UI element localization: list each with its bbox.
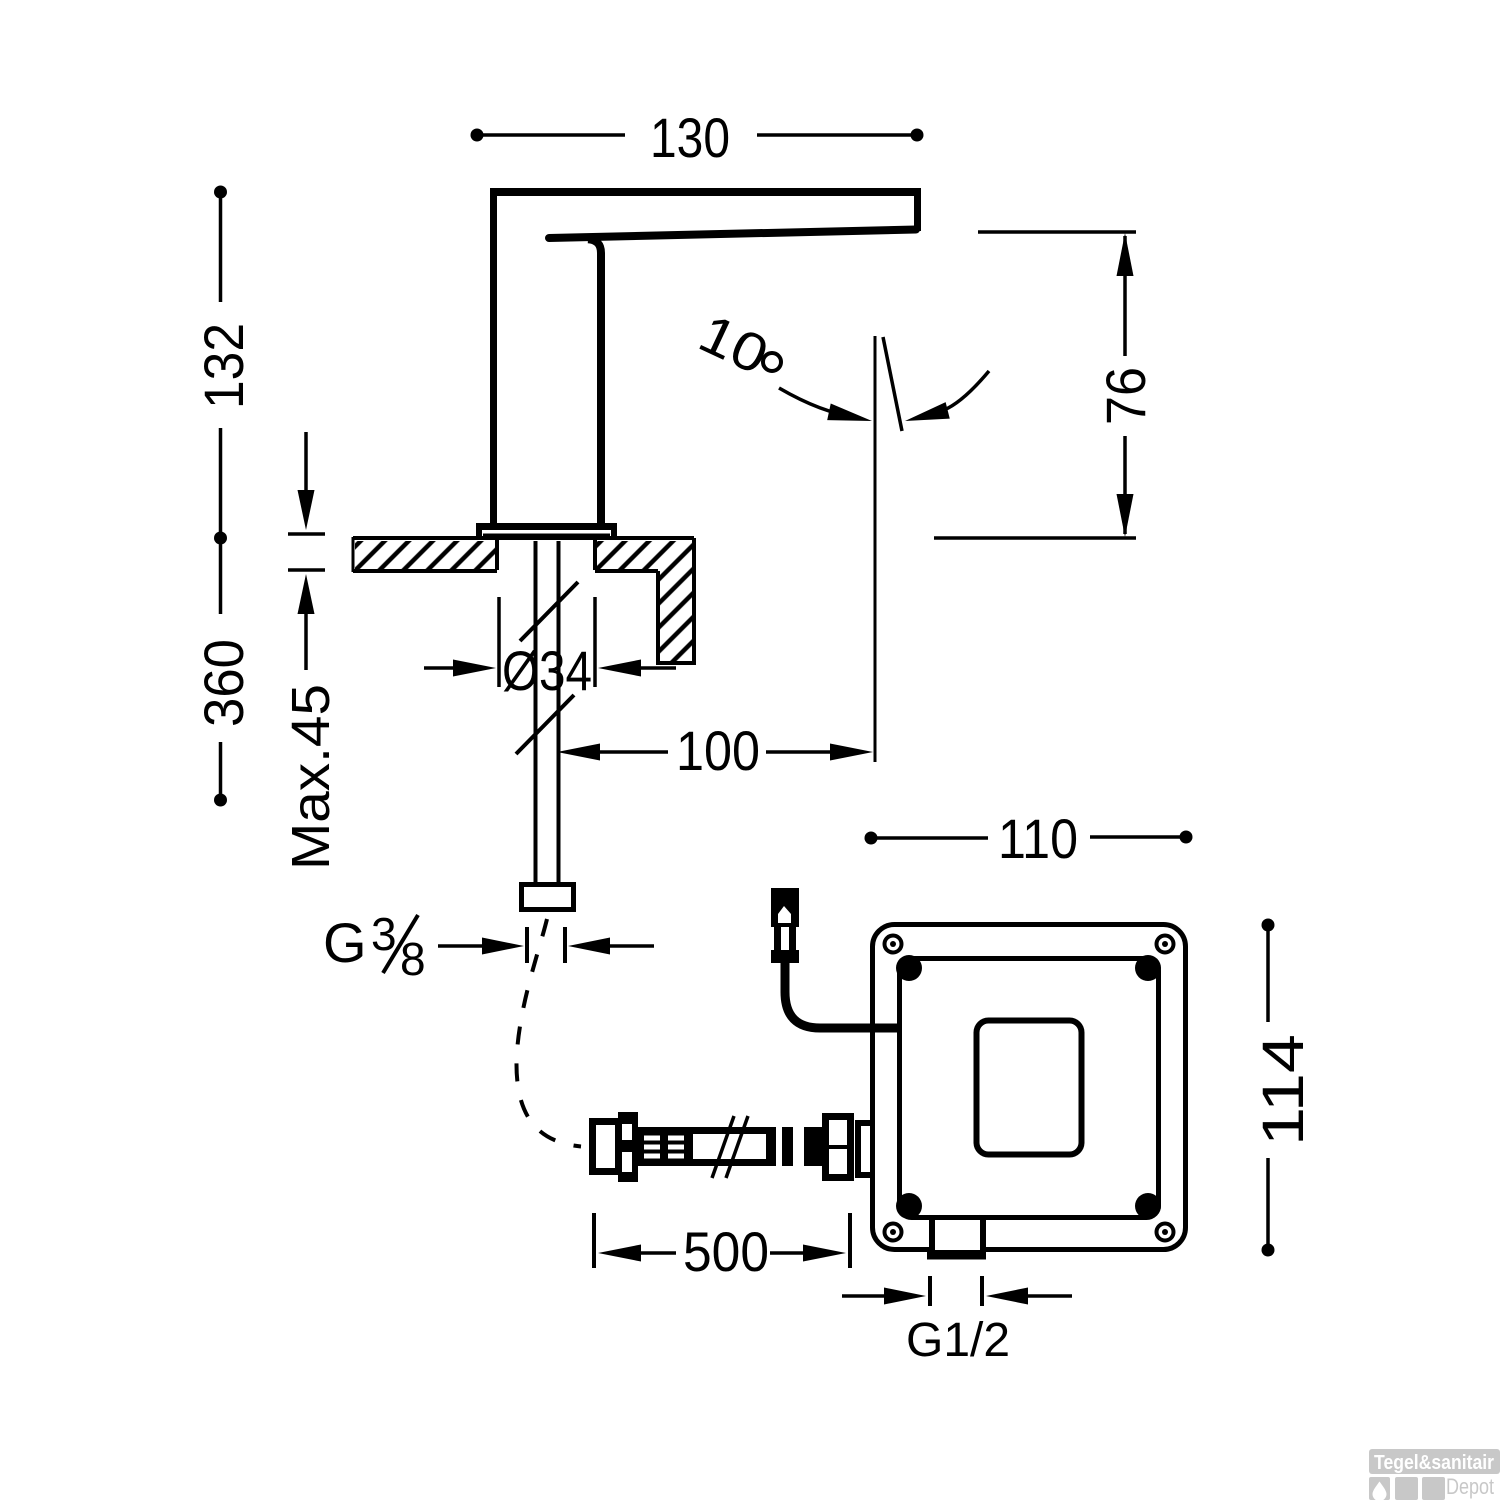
flexible hose assembly bbox=[593, 1112, 876, 1182]
svg-text:360: 360 bbox=[192, 639, 255, 727]
dimension 114 bbox=[1262, 919, 1275, 1257]
dimension G1/2 bbox=[842, 1276, 1072, 1306]
label G 3/8 bbox=[323, 908, 426, 985]
bottom outlet G1/2 bbox=[927, 1219, 986, 1256]
svg-text:G1/2: G1/2 bbox=[906, 1314, 1010, 1367]
sensor cable bbox=[785, 960, 897, 1028]
angle arc left with arrowhead bbox=[779, 388, 874, 429]
watermark Tegel&sanitair Depot bbox=[1369, 1449, 1500, 1500]
svg-text:G: G bbox=[323, 911, 367, 974]
angle arc right with arrowhead bbox=[903, 371, 989, 429]
tilted 10 degree line bbox=[883, 337, 902, 431]
left nut bbox=[593, 1122, 619, 1172]
svg-text:Tegel&sanitair: Tegel&sanitair bbox=[1374, 1452, 1494, 1474]
dimension 76 bbox=[934, 232, 1136, 538]
svg-text:500: 500 bbox=[683, 1220, 769, 1283]
pipe end nut G3/8 bbox=[522, 885, 574, 910]
countertop section with hatching bbox=[353, 537, 696, 665]
faucet base flange bbox=[476, 523, 617, 538]
dimension Ø34 bbox=[424, 597, 676, 687]
right nut bbox=[826, 1117, 851, 1178]
dashed flexible hose curve bbox=[516, 919, 581, 1147]
dimension 100 bbox=[557, 744, 873, 761]
label 10 degrees bbox=[690, 303, 781, 386]
hose middle bbox=[693, 1127, 766, 1134]
svg-text:Depot: Depot bbox=[1446, 1474, 1494, 1499]
dimension G 3/8 arrows bbox=[438, 927, 654, 963]
fitting bands bbox=[766, 1127, 776, 1166]
svg-text:8: 8 bbox=[400, 933, 426, 985]
dimension Max.45 bbox=[288, 432, 325, 670]
collar bbox=[618, 1112, 638, 1182]
svg-text:Max.45: Max.45 bbox=[281, 684, 341, 870]
hose break slashes bbox=[712, 1116, 734, 1178]
svg-text:Ø34: Ø34 bbox=[502, 639, 592, 702]
faucet body outline bbox=[490, 189, 921, 523]
pipe break slashes bbox=[516, 582, 578, 754]
dimension 130 top bbox=[471, 129, 924, 142]
inlet port on box bbox=[858, 1123, 875, 1175]
inner panel mounting dots bbox=[896, 955, 1161, 1219]
vertical reference line for angle bbox=[874, 336, 877, 762]
corner screws bbox=[885, 936, 1174, 1241]
svg-text:130: 130 bbox=[650, 106, 730, 169]
svg-text:3: 3 bbox=[371, 908, 397, 960]
cable plug connector bbox=[771, 888, 799, 963]
control box inner panel bbox=[900, 959, 1159, 1218]
dimension 110 bbox=[865, 831, 1193, 845]
svg-text:100: 100 bbox=[676, 719, 760, 782]
sensor window bbox=[977, 1021, 1082, 1155]
svg-text:132: 132 bbox=[192, 323, 255, 409]
svg-text:114: 114 bbox=[1251, 1034, 1316, 1146]
control box outer case bbox=[873, 925, 1186, 1250]
svg-text:110: 110 bbox=[998, 807, 1078, 870]
left dimension line 132 / 360 bbox=[214, 186, 227, 807]
braided section bbox=[638, 1127, 693, 1166]
supply pipe bbox=[536, 541, 559, 882]
dimension 500 bbox=[594, 1213, 850, 1268]
svg-text:76: 76 bbox=[1094, 367, 1157, 425]
